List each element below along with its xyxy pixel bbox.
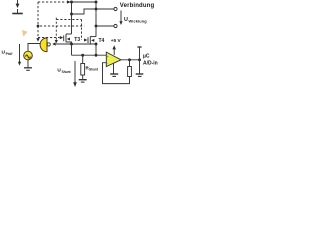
voltage arrow U_Shunt — [73, 61, 77, 87]
wire: source top lead — [28, 44, 41, 52]
svg-text:µC: µC — [143, 53, 150, 59]
node N1 (drain rail left) — [70, 1, 73, 4]
transistor T3 — [64, 34, 72, 44]
wire: lower winding terminal — [96, 25, 114, 27]
dashed wire to plug (vertical x=56) — [55, 18, 58, 44]
resistor R_Shunt — [81, 64, 85, 76]
ground under source — [24, 68, 32, 71]
svg-text:Shunt: Shunt — [62, 70, 72, 74]
dashed wire to lower winding terminal — [40, 25, 84, 27]
svg-text:T3: T3 — [74, 37, 80, 43]
node N6 (plug wire / T3 source) — [70, 43, 73, 46]
terminal top-left: arrow onto bar — [12, 0, 22, 14]
dashed wire to T4 gate (horizontal y=19.5) — [56, 19, 81, 21]
dashed wire to T3 gate — [38, 36, 63, 39]
plug pin — [47, 43, 50, 46]
svg-text:Verbindung: Verbindung — [120, 3, 155, 9]
resistor R2 feedback — [128, 67, 132, 77]
wire: uC supply stub — [139, 47, 141, 60]
wire: measurement rail y=44 — [56, 43, 96, 45]
node N2 (drain rail right) — [95, 1, 98, 4]
svg-text:A/D-in: A/D-in — [143, 60, 158, 66]
wire: shunt rail y=56 — [72, 54, 107, 56]
wire: source bottom lead — [27, 60, 29, 68]
wire: feedback path — [103, 63, 130, 84]
wire: T4 source down — [95, 44, 97, 55]
svg-text:Shunt: Shunt — [89, 68, 99, 72]
voltage arrow U_Pruef — [18, 44, 21, 66]
svg-text:Wicklung: Wicklung — [129, 18, 148, 23]
wire: R_shunt bottom lead — [82, 75, 84, 80]
terminal lower winding — [114, 24, 117, 27]
svg-text:Prüf: Prüf — [6, 52, 14, 56]
transistor T4 — [88, 36, 96, 44]
svg-text:+: + — [107, 55, 109, 59]
node N8 (shunt rail / R_Shunt tap) — [81, 54, 84, 57]
callout marker (light orange wedge) — [22, 30, 28, 37]
dashed Verbindung wire left vertical — [36, 2, 39, 42]
svg-text:T4: T4 — [99, 38, 105, 44]
wire: to upper winding terminal — [72, 9, 114, 14]
node N5 (lower winding wire) — [95, 25, 98, 28]
node N7 (T4 source) — [95, 43, 98, 46]
wire: uC down to ground — [139, 60, 141, 74]
labels — [2, 3, 158, 74]
svg-text:U: U — [124, 17, 128, 23]
ground under op-amp — [110, 74, 118, 76]
node N3 (T3 drain tap) — [70, 13, 73, 16]
node N11 (A/D input) — [138, 58, 141, 61]
supply bar — [137, 46, 141, 48]
node N9 (shunt rail / T4 source tap) — [95, 54, 98, 57]
AC source G1 — [24, 51, 33, 60]
node: dashed junction dot — [37, 25, 40, 28]
wire: resistor to output node — [129, 60, 131, 67]
plug connector (half disc) — [40, 38, 47, 52]
ground under R_shunt — [79, 80, 87, 82]
wire: T3 drain vertical — [71, 2, 73, 34]
node N4 (upper winding wire) — [95, 8, 98, 11]
dashed wire to T4 gate (vertical x=81.5) — [82, 20, 88, 42]
terminal upper winding — [114, 7, 117, 10]
dashed Verbindung wire top — [38, 0, 71, 3]
wire: op-amp V- stub to ground — [113, 63, 115, 74]
voltage arrow U_Wicklung — [119, 11, 122, 26]
wire: top rail — [72, 1, 97, 3]
wire: down to shunt rail — [71, 44, 73, 55]
ground at uC — [136, 74, 144, 76]
wire: R_shunt top lead — [82, 55, 84, 63]
wire: +5V stub on op-amp — [112, 45, 116, 55]
svg-text:+5 V: +5 V — [111, 38, 122, 43]
op-amp U1 — [106, 52, 121, 66]
wire: T4 drain vertical — [95, 2, 97, 37]
wire: op-amp output — [121, 59, 140, 61]
arrow onto plug pin — [52, 42, 55, 45]
svg-text:-: - — [107, 61, 108, 65]
node N10 (op-amp output / R2 tap) — [128, 58, 131, 61]
